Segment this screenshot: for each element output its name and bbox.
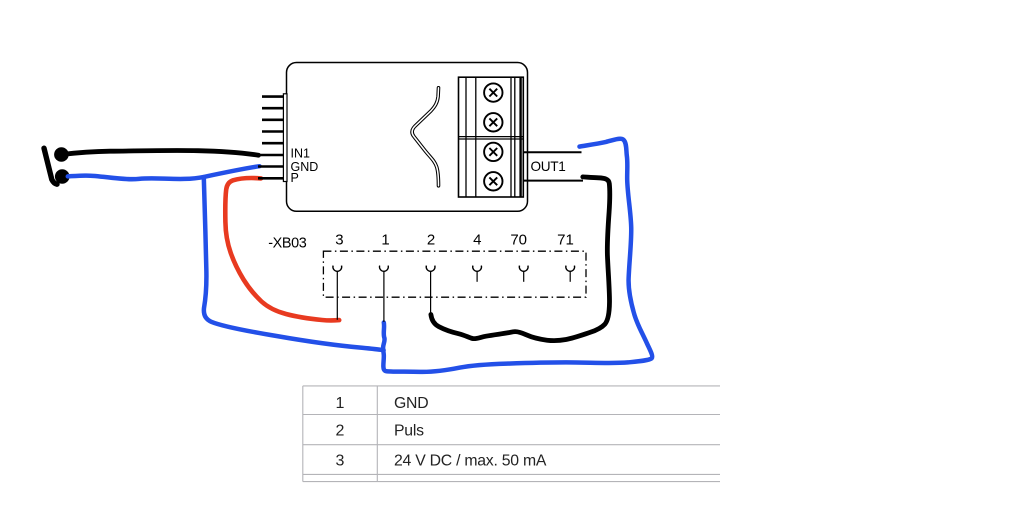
- svg-text:P: P: [291, 171, 299, 185]
- wire red P to terminal 3: [225, 178, 339, 320]
- terminal block right rail lines: [510, 77, 512, 197]
- wire blue terminal1 drop, bottom run, right rise to OUT1: [383, 139, 652, 372]
- svg-text:70: 70: [510, 231, 527, 248]
- svg-text:1: 1: [381, 231, 389, 248]
- terminal 1 contact: [380, 266, 389, 272]
- connector pin IN1: [258, 154, 283, 157]
- device U1 outline: [287, 63, 528, 212]
- wire black dot A to IN1: [61, 150, 258, 155]
- connector pin GND: [258, 165, 283, 168]
- wire blue branch down-left loop: [204, 178, 384, 351]
- svg-text:2: 2: [336, 422, 345, 439]
- terminal 71 contact: [566, 266, 575, 272]
- screw 3: [484, 143, 502, 161]
- connector pin P: [258, 177, 283, 180]
- svg-text:IN1: IN1: [291, 147, 311, 161]
- screw 1: [484, 83, 502, 101]
- terminal strip XB03 dash-dot box: [323, 251, 586, 297]
- svg-text:GND: GND: [394, 395, 428, 412]
- plug contact A: [54, 147, 69, 162]
- strain relief curve: [412, 88, 438, 186]
- svg-text:Puls: Puls: [394, 422, 424, 439]
- screw 2: [484, 113, 502, 131]
- connector pin 4: [262, 130, 283, 133]
- OUT1 lower lead: [523, 180, 583, 182]
- svg-text:3: 3: [335, 231, 343, 248]
- connector pin 5: [262, 142, 283, 145]
- connector pin 1: [262, 95, 283, 98]
- svg-text:3: 3: [336, 452, 345, 469]
- terminal 70 contact: [519, 266, 528, 272]
- svg-text:1: 1: [336, 395, 345, 412]
- svg-text:4: 4: [473, 231, 481, 248]
- terminal 3 contact: [333, 266, 342, 272]
- svg-text:-XB03: -XB03: [268, 235, 307, 251]
- svg-text:2: 2: [427, 231, 435, 248]
- connector comb bar: [283, 94, 287, 182]
- terminal 4 contact: [473, 266, 482, 272]
- svg-text:OUT1: OUT1: [531, 159, 566, 174]
- svg-text:24 V DC / max. 50 mA: 24 V DC / max. 50 mA: [394, 452, 547, 469]
- connector pin 3: [262, 119, 283, 122]
- plug lever: [44, 148, 57, 184]
- svg-text:71: 71: [557, 231, 574, 248]
- terminal block body: [459, 77, 524, 197]
- OUT1 upper lead: [523, 151, 581, 153]
- screw 4: [484, 172, 502, 190]
- terminal 2 contact: [426, 266, 435, 272]
- plug contact B: [55, 169, 70, 184]
- wire black OUT1 to terminal 2: [431, 177, 610, 341]
- connector pin 2: [262, 107, 283, 110]
- wire blue GND to dot B: [68, 166, 260, 179]
- terminal block left rail lines: [465, 77, 467, 197]
- terminal block divider: [459, 136, 524, 138]
- table grid: [303, 386, 720, 482]
